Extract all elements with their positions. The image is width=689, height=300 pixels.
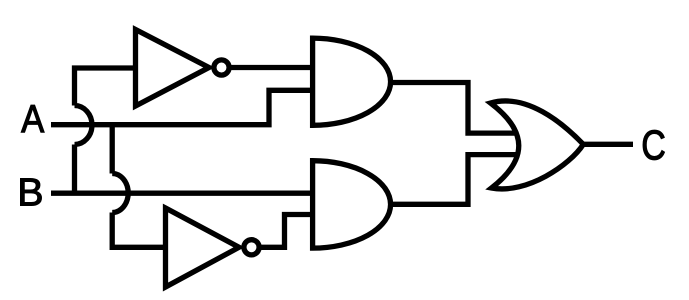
wire: NOT1 output to AND1 upper input <box>228 65 314 70</box>
wire: input A horizontal then step up to AND1 lower input <box>51 90 314 124</box>
node label B <box>21 179 42 206</box>
wire hop: vertical B-to-NOT1 wire jumps over input A wire <box>75 106 93 145</box>
and-gate AND2 (B AND NOT A) <box>313 161 391 248</box>
wire: from B junction up to NOT1 input (below hop) <box>72 145 77 196</box>
wire: NOT2 output step up to AND2 lower input <box>258 215 314 248</box>
inverter NOT1 (input from B) <box>136 30 230 107</box>
wire: OR output to label C <box>583 142 633 147</box>
wire hop: vertical A-to-NOT2 wire jumps over input B wire <box>112 174 128 213</box>
node label C <box>643 130 664 160</box>
wire: AND2 output right then up into OR lower input <box>388 155 520 205</box>
wire: input B horizontal to AND2 upper input <box>51 191 314 196</box>
wire: from hop down then right into NOT2 input <box>112 213 170 248</box>
and-gate AND1 (NOT B AND A) <box>313 38 391 125</box>
wire: from hop up then right into NOT1 input <box>75 68 141 106</box>
wire: AND1 output right then down into OR upper input <box>388 83 520 134</box>
inverter NOT2 (input from A) <box>166 208 260 287</box>
node label A <box>21 105 44 132</box>
wire: from A junction down to hop over B <box>110 122 115 174</box>
or-gate OR1 (output C) <box>491 101 584 189</box>
